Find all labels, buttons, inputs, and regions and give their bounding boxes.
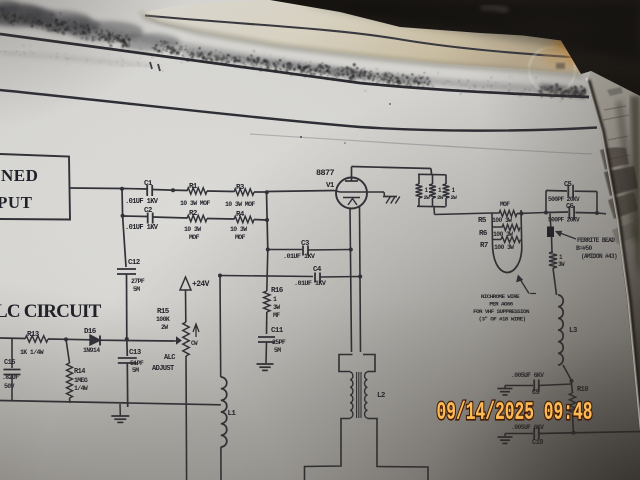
svg-text:09/14/2025 09:48: 09/14/2025 09:48 — [437, 398, 593, 426]
